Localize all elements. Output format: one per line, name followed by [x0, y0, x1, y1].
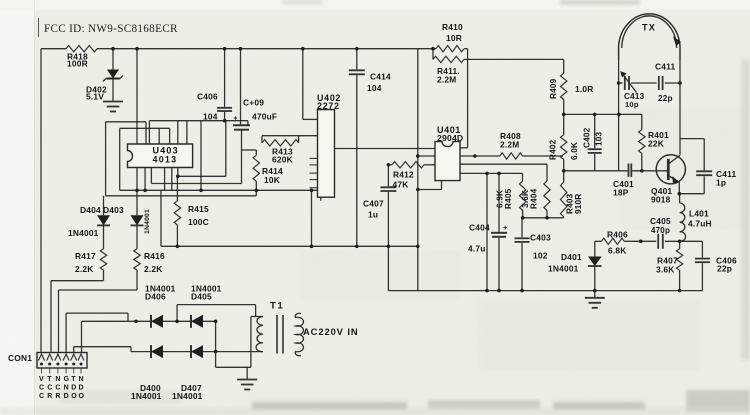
antenna TX loop	[619, 14, 680, 60]
resistor R402	[563, 114, 565, 134]
svg-text:C414: C414	[370, 72, 391, 82]
wire U401 bottom pin	[441, 181, 443, 190]
wire pin5 link	[73, 347, 75, 353]
diode D400	[151, 345, 163, 358]
wire x418 vertical	[417, 49, 419, 247]
svg-text:D406: D406	[145, 292, 166, 302]
svg-text:T: T	[47, 376, 52, 383]
wire loop outer right x201	[200, 121, 202, 191]
svg-text:R415: R415	[188, 204, 209, 214]
svg-text:R: R	[55, 393, 60, 400]
wire x311 drop	[311, 190, 313, 246]
ground for D402	[103, 101, 123, 103]
wire pin x159	[158, 128, 160, 144]
capacitor C404	[498, 173, 500, 231]
svg-text:2.2M: 2.2M	[500, 140, 519, 150]
svg-text:100C: 100C	[188, 217, 209, 227]
wire top bus	[41, 48, 66, 50]
wire base line y171	[564, 170, 628, 172]
wire x487 drop	[486, 173, 488, 290]
wire bus C y246	[161, 245, 418, 247]
wire TX left leg	[618, 60, 620, 171]
resistor R405	[520, 181, 526, 211]
svg-text:4.7uH: 4.7uH	[688, 219, 712, 229]
svg-text:22p: 22p	[658, 94, 673, 103]
wire y164 to R404	[460, 163, 547, 165]
svg-text:C402: C402	[583, 127, 592, 148]
svg-text:9018: 9018	[651, 195, 671, 205]
resistor R401	[641, 114, 643, 129]
resistor R406	[602, 238, 625, 244]
svg-text:10p: 10p	[625, 100, 639, 109]
svg-text:D401: D401	[561, 252, 582, 262]
svg-text:620K: 620K	[272, 155, 293, 165]
diode D407	[191, 345, 203, 358]
wire riser to coil top	[250, 317, 252, 368]
svg-text:5.1V: 5.1V	[86, 92, 104, 102]
svg-text:6.8K: 6.8K	[608, 246, 627, 256]
resistor R410	[436, 46, 464, 52]
svg-text:R404: R404	[530, 188, 539, 209]
svg-text:+: +	[234, 116, 238, 123]
wire TX right leg	[679, 60, 681, 155]
diode D403	[136, 190, 138, 215]
svg-text:O: O	[79, 393, 85, 400]
wire bridge mid to transformer	[176, 305, 178, 322]
wire y156 + resistor R408	[460, 155, 500, 157]
zener diode D402	[112, 49, 114, 70]
transistor Q401	[656, 155, 685, 184]
wire bridge top rail	[82, 320, 216, 322]
svg-text:102: 102	[533, 251, 548, 261]
svg-text:3.6K: 3.6K	[656, 265, 675, 275]
wire U402 to U401	[335, 148, 436, 150]
svg-text:2.2M: 2.2M	[437, 75, 456, 85]
wire U402 top-left pin	[302, 49, 304, 120]
resistor R409	[561, 73, 567, 99]
ground transformer	[246, 367, 248, 379]
svg-text:910R: 910R	[574, 194, 583, 214]
svg-text:G: G	[64, 376, 70, 383]
capacitor C403	[521, 218, 523, 238]
svg-text:V: V	[39, 376, 44, 383]
svg-text:FCC ID: NW9-SC8168ECR: FCC ID: NW9-SC8168ECR	[44, 23, 178, 35]
svg-text:C404: C404	[469, 223, 490, 233]
capacitor C406 22p	[701, 241, 703, 257]
capacitor C406	[224, 49, 226, 107]
svg-text:C405: C405	[650, 216, 671, 226]
wire U403 bottom pins	[136, 168, 138, 191]
svg-text:1p: 1p	[716, 178, 726, 188]
resistor R413	[262, 140, 299, 146]
svg-text:CON1: CON1	[8, 353, 32, 363]
svg-text:T: T	[71, 376, 76, 383]
wire y367 to transformer	[216, 366, 251, 368]
svg-text:103: 103	[595, 131, 604, 146]
wire loop F right of IC	[177, 168, 179, 177]
svg-text:1u: 1u	[368, 210, 378, 220]
wire left rail	[40, 49, 42, 353]
capacitor C411 22p	[658, 76, 660, 90]
svg-text:C+09: C+09	[243, 98, 264, 108]
wire drop to U401 pin1	[467, 59, 469, 147]
diode D405	[191, 315, 203, 328]
wire bus y114	[564, 113, 642, 115]
wire C409 to R414	[242, 149, 257, 151]
svg-text:2.2K: 2.2K	[75, 264, 94, 274]
svg-text:R405: R405	[504, 188, 513, 209]
svg-text:22p: 22p	[717, 264, 732, 274]
svg-text:R: R	[47, 393, 52, 400]
svg-text:D: D	[71, 385, 76, 392]
svg-text:R412: R412	[393, 170, 414, 180]
svg-text:C403: C403	[530, 233, 551, 243]
capacitor C411 1p	[703, 139, 705, 171]
svg-text:D403: D403	[103, 205, 124, 215]
diode D401	[594, 241, 596, 256]
svg-text:1N4001: 1N4001	[131, 391, 162, 401]
wire y241	[595, 240, 602, 242]
capacitor C409	[240, 49, 242, 125]
svg-text:10K: 10K	[264, 175, 280, 185]
wire bus y218	[522, 211, 524, 218]
svg-text:C: C	[47, 385, 52, 392]
svg-text:4013: 4013	[153, 155, 178, 165]
resistor R415	[176, 176, 178, 201]
resistor R412	[387, 163, 391, 167]
svg-text:C: C	[39, 393, 44, 400]
wire pin2 link	[51, 280, 104, 282]
svg-text:470uF: 470uF	[252, 112, 277, 122]
inductor L401	[679, 194, 681, 203]
wire pin4 link	[65, 313, 67, 352]
wire R413 loop	[262, 135, 318, 137]
label FCC ID	[38, 18, 40, 37]
svg-text:N: N	[55, 376, 60, 383]
IC U401	[435, 142, 460, 181]
svg-text:D: D	[64, 393, 69, 400]
svg-text:104: 104	[367, 83, 382, 93]
capacitor C402	[594, 114, 596, 148]
svg-text:1N4001: 1N4001	[144, 209, 151, 234]
transformer T1 secondary coil	[256, 317, 263, 352]
node top bus junctions	[111, 47, 115, 51]
capacitor C407	[387, 165, 389, 187]
svg-text:R402: R402	[549, 139, 558, 160]
connector CON1	[37, 353, 87, 369]
wire tank y83	[619, 82, 623, 84]
svg-text:2904D: 2904D	[437, 133, 463, 143]
svg-text:C407: C407	[363, 199, 384, 209]
wire R410 drop	[467, 49, 469, 60]
IC U402	[318, 110, 335, 198]
svg-text:100R: 100R	[67, 59, 88, 69]
transformer T1 primary coil	[295, 313, 303, 355]
svg-text:O: O	[71, 393, 77, 400]
svg-text:R410: R410	[442, 22, 463, 32]
svg-text:D: D	[79, 385, 84, 392]
svg-text:+: +	[503, 223, 508, 232]
wire bridge bottom rail	[131, 351, 216, 353]
transformer T1 core	[276, 315, 278, 354]
wire collector stub	[680, 138, 704, 140]
ground for D401	[594, 291, 596, 297]
wire coil bottom link	[216, 351, 263, 353]
svg-text:N: N	[64, 385, 69, 392]
wire y173 to R405/C404	[460, 172, 523, 174]
capacitor C401	[628, 164, 630, 177]
wire y59 bus to R409	[468, 58, 564, 60]
svg-text:1N4001: 1N4001	[68, 228, 99, 238]
svg-text:22K: 22K	[648, 139, 664, 149]
resistor R403	[563, 171, 565, 182]
resistor R416	[134, 249, 140, 270]
wire bus C y246 riser	[160, 190, 162, 246]
svg-text:1N4001: 1N4001	[548, 264, 579, 274]
IC U403	[128, 144, 193, 168]
svg-text:C406: C406	[197, 92, 218, 102]
wire loop E	[150, 168, 152, 184]
wire U402 left pin stubs	[310, 157, 318, 159]
resistor R411	[432, 49, 434, 60]
svg-text:10R: 10R	[446, 33, 462, 43]
wire loop top B	[149, 120, 248, 122]
wire U402 bottom stub	[320, 197, 322, 201]
svg-text:TX: TX	[642, 23, 656, 33]
svg-text:470p: 470p	[651, 226, 670, 235]
svg-text:D404: D404	[80, 205, 101, 215]
svg-text:T1: T1	[270, 301, 284, 312]
resistor R417	[100, 249, 106, 270]
diode D404	[103, 196, 105, 215]
svg-text:L401: L401	[689, 209, 709, 219]
wire drop x563	[563, 59, 565, 73]
svg-text:R409: R409	[549, 78, 558, 99]
capacitor C405	[657, 234, 659, 249]
resistor R414	[255, 150, 257, 155]
trimmer capacitor C413	[624, 76, 626, 90]
wire pin drop x137	[136, 49, 138, 144]
wire pin3 link	[59, 289, 138, 291]
wire bus B y196	[106, 195, 257, 197]
svg-text:1.0R: 1.0R	[575, 84, 594, 94]
svg-text:R416: R416	[144, 251, 165, 261]
svg-text:C: C	[55, 385, 60, 392]
wire bottom rail	[388, 290, 702, 292]
wire loop second	[119, 128, 121, 190]
svg-text:R406: R406	[607, 230, 628, 240]
diode D406	[151, 315, 163, 328]
svg-text:6.0K: 6.0K	[570, 142, 579, 160]
capacitor C414	[356, 49, 358, 70]
resistor R418	[66, 46, 97, 52]
svg-text:2.2K: 2.2K	[144, 264, 163, 274]
wire emitter junction	[678, 192, 682, 196]
svg-text:N: N	[79, 376, 84, 383]
resistor R407	[679, 241, 681, 249]
svg-text:C: C	[39, 385, 44, 392]
resistor R404	[544, 181, 550, 211]
wire pin6 link	[81, 321, 83, 352]
svg-text:1N4001: 1N4001	[172, 391, 203, 401]
svg-text:C411: C411	[655, 62, 676, 72]
wire loop outer left	[105, 122, 107, 196]
svg-text:104: 104	[203, 112, 218, 122]
svg-text:AC220V IN: AC220V IN	[303, 326, 359, 337]
svg-text:R417: R417	[75, 251, 96, 261]
svg-text:2272: 2272	[317, 101, 340, 111]
svg-text:4.7u: 4.7u	[468, 244, 486, 254]
svg-text:18P: 18P	[613, 188, 629, 198]
svg-text:D405: D405	[191, 292, 212, 302]
wire bus A y190	[120, 189, 318, 191]
wire bridge right leg	[215, 321, 217, 367]
